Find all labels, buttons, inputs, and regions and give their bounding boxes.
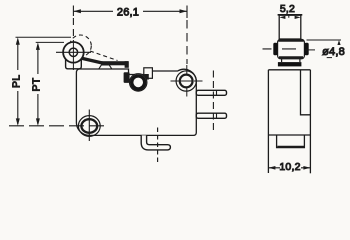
svg-text:26,1: 26,1 <box>117 7 139 19</box>
svg-text:10,2: 10,2 <box>279 161 300 173</box>
svg-text:ø4,8: ø4,8 <box>322 46 345 58</box>
svg-text:PT: PT <box>31 77 43 91</box>
svg-text:PL: PL <box>11 75 23 88</box>
svg-text:5,2: 5,2 <box>280 3 295 15</box>
